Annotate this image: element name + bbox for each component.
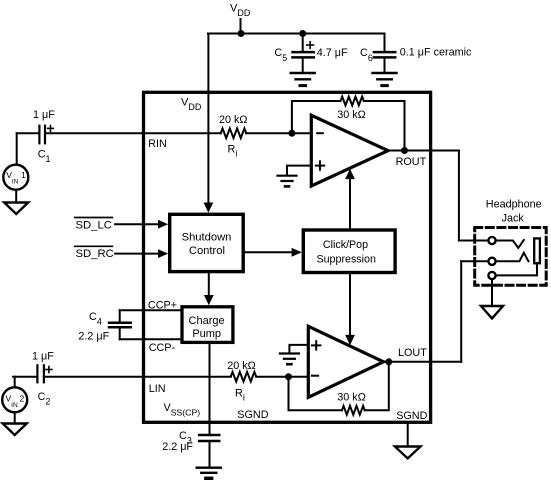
svg-text:30 kΩ: 30 kΩ xyxy=(337,392,365,404)
svg-text:20 kΩ: 20 kΩ xyxy=(227,360,255,372)
svg-text:Headphone: Headphone xyxy=(486,199,542,211)
svg-text:SD_RC: SD_RC xyxy=(76,248,114,260)
svg-text:Shutdown: Shutdown xyxy=(182,232,232,244)
svg-text:1 μF: 1 μF xyxy=(33,109,55,121)
svg-text:RIN: RIN xyxy=(148,138,167,150)
svg-text:4.7 μF: 4.7 μF xyxy=(317,47,348,59)
svg-text:2.2 μF: 2.2 μF xyxy=(162,441,193,453)
svg-text:SD_LC: SD_LC xyxy=(76,220,112,232)
svg-text:0.1 μF ceramic: 0.1 μF ceramic xyxy=(400,47,472,59)
svg-text:2.2 μF: 2.2 μF xyxy=(78,331,109,343)
svg-text:Control: Control xyxy=(189,245,225,257)
svg-text:CCP-: CCP- xyxy=(149,342,176,354)
svg-text:1 μF: 1 μF xyxy=(32,351,54,363)
svg-text:20 kΩ: 20 kΩ xyxy=(219,114,247,126)
svg-text:Jack: Jack xyxy=(502,213,525,225)
svg-text:LIN: LIN xyxy=(149,383,166,395)
svg-text:Pump: Pump xyxy=(192,328,221,340)
svg-text:Suppression: Suppression xyxy=(316,254,375,266)
svg-text:ROUT: ROUT xyxy=(396,156,427,168)
svg-text:30 kΩ: 30 kΩ xyxy=(337,109,365,121)
svg-text:Charge: Charge xyxy=(189,315,225,327)
svg-text:SGND: SGND xyxy=(396,410,427,422)
svg-text:SGND: SGND xyxy=(237,409,268,421)
svg-text:Click/Pop: Click/Pop xyxy=(323,239,368,251)
svg-text:LOUT: LOUT xyxy=(398,347,427,359)
svg-text:CCP+: CCP+ xyxy=(148,299,177,311)
